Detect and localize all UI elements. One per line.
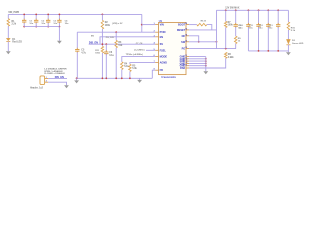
pin 17 GND (right) (186, 65, 189, 67)
svg-text:1: 1 (46, 77, 47, 79)
pin 14 NC (right) (186, 35, 189, 37)
pin 8 FB (left) (155, 69, 158, 71)
svg-text:4.99k: 4.99k (228, 56, 234, 59)
svg-text:PG: PG (182, 48, 186, 51)
ground (output) (287, 51, 289, 52)
ground (input caps) (57, 41, 62, 44)
svg-text:10u: 10u (41, 23, 45, 25)
resistor R2 enable pull-up (101, 14, 103, 20)
capacitor C3 input bypass (47, 14, 49, 19)
wire VIN top rail (8, 13, 142, 15)
svg-text:PVIN: PVIN (160, 31, 166, 34)
wire SW riser (216, 10, 218, 48)
svg-text:10u: 10u (29, 23, 33, 25)
resistor R8 feedback lower (224, 52, 227, 58)
wire D1 to ground (7, 42, 9, 52)
pin PAD (right) (186, 67, 189, 69)
pin 11 GND (right) (186, 56, 189, 58)
ground (gnd rail mid) (139, 78, 141, 80)
wire IC ground pin row 4 (189, 62, 206, 64)
junction C13 top (277, 9, 279, 11)
pin 12 PG (right) (186, 48, 189, 50)
wire gnd rail to IC pin 8 (152, 70, 155, 78)
pin 8 GND (right) (186, 62, 189, 64)
junction R11 / gnd rail (102, 77, 104, 79)
pin 7 AGND (left) (155, 62, 158, 64)
svg-text:10u: 10u (249, 27, 253, 29)
svg-text:SS: SS (160, 43, 164, 46)
svg-text:14: 14 (185, 33, 187, 36)
ground (input LED) (6, 51, 11, 54)
junction VIN pin 1 (141, 24, 143, 26)
connector J1 Header_1x2 (40, 76, 45, 85)
wire IC ground pin row 2 (189, 58, 206, 60)
pin 6 MODE (left) (155, 56, 158, 58)
svg-text:AGND: AGND (160, 62, 168, 65)
wire PG pin net (189, 48, 236, 50)
svg-text:EN: EN (160, 36, 164, 39)
wire jumper pin 2 to ground (48, 82, 67, 85)
resistor R9 series (234, 36, 237, 44)
svg-text:FB: FB (160, 69, 164, 72)
wire SW/VOUT top rail (217, 9, 289, 11)
junction R7 top (225, 9, 227, 11)
svg-text:Green LED: Green LED (292, 43, 304, 45)
svg-text:10u: 10u (53, 23, 57, 25)
capacitor C11 output (258, 10, 260, 24)
svg-text:17: 17 (185, 64, 187, 66)
junction C9 top (235, 9, 237, 11)
junction DIS_EN / R2 (102, 43, 104, 45)
pin 15 RESET (right) (186, 29, 189, 31)
junction NC/SW (198, 41, 200, 43)
resistor R7 feedback upper (225, 10, 227, 21)
junction SW vertical (216, 41, 218, 43)
svg-text:15: 15 (185, 29, 187, 31)
wire to input ground (58, 27, 60, 41)
junction C2 top (35, 14, 37, 16)
svg-text:10u: 10u (269, 27, 273, 29)
junction ground bus (205, 58, 207, 60)
ground (IC) (203, 71, 208, 74)
junction ground bus (205, 65, 207, 67)
svg-text:12V SW MAX: 12V SW MAX (225, 7, 240, 10)
junction VIN feed / R3 (115, 31, 117, 33)
junction R3 / gnd rail (115, 77, 117, 79)
svg-text:4: 4 (154, 42, 155, 45)
capacitor C12 output (267, 10, 269, 24)
pin 4 SS (left) (155, 43, 158, 45)
svg-text:0.1u: 0.1u (109, 55, 114, 57)
svg-text:1: 1 (154, 23, 155, 25)
svg-text:VIN_PWR: VIN_PWR (8, 11, 19, 14)
svg-text:R6_B: R6_B (201, 20, 207, 22)
wire R1 to D1 (7, 26, 9, 38)
svg-text:10u: 10u (239, 27, 243, 29)
wire IC ground pin row 1 (189, 56, 206, 58)
resistor R6 boot (189, 24, 197, 26)
svg-text:NC: NC (182, 35, 186, 38)
junction PG / feedback (225, 48, 227, 50)
svg-text:Red LED: Red LED (12, 42, 22, 44)
svg-text:RESET: RESET (177, 29, 186, 32)
capacitor C5 bulk input (76, 32, 78, 48)
wire IC pin 7 net (130, 63, 155, 65)
capacitor C2 input bypass (35, 14, 37, 19)
wire RESET pin to SW vertical (189, 29, 217, 31)
junction output cap ground (258, 50, 260, 52)
wire jumper pin 1 DIS_EN (48, 77, 67, 79)
junction output cap ground (267, 50, 269, 52)
svg-text:(VIN) = 2V: (VIN) = 2V (112, 23, 123, 25)
wire input cap ground rail (24, 26, 59, 28)
resistor R4 to ground (121, 62, 124, 70)
svg-text:FSEL: FSEL (160, 49, 167, 52)
LED D1 red power indicator (6, 38, 10, 41)
resistor R5 to ground (129, 64, 132, 71)
pin 1 VIN (left) (155, 24, 158, 26)
svg-text:TPS6x (=4.2MHz): TPS6x (=4.2MHz) (126, 53, 143, 56)
junction C4 bottom (59, 26, 61, 28)
pin 10 GND (right) (186, 58, 189, 60)
svg-text:100k: 100k (105, 25, 111, 27)
pin 9 GND (right) (186, 60, 189, 62)
svg-text:4.7u: 4.7u (81, 51, 86, 54)
op-amp U1 regulator TPS62913 (159, 23, 187, 75)
junction C1 top (23, 14, 25, 16)
wire feed rail B to IC pin 3 (100, 37, 155, 44)
capacitor C13 output (277, 10, 279, 24)
pin 13 SW (right) (186, 41, 189, 43)
junction C2 bottom (35, 26, 37, 28)
LED D2 green output indicator (286, 39, 290, 44)
svg-text:2: 2 (154, 31, 155, 33)
junction C3 bottom (47, 26, 49, 28)
svg-text:12: 12 (185, 47, 187, 49)
wire IC pin 6 net (122, 57, 155, 62)
junction DIS_EN / C6 (105, 43, 107, 45)
wire IC pin 5 net (146, 49, 155, 51)
junction VIN rail / R2 (102, 14, 104, 16)
svg-text:6: 6 (154, 55, 155, 57)
pin 3 EN (left) (155, 36, 158, 38)
svg-text:100k: 100k (95, 53, 101, 55)
pin 5 FSEL (left) (155, 49, 158, 51)
junction R5 / gnd rail (129, 77, 131, 79)
svg-text:10u: 10u (259, 27, 263, 29)
junction C12 top (267, 9, 269, 11)
wire D2 to output ground rail (287, 45, 289, 51)
junction ground bus (205, 63, 207, 65)
resistor R3 to ground (115, 32, 117, 40)
svg-text:TPS62913RPU: TPS62913RPU (161, 77, 176, 79)
pin 2 PVIN (left) (155, 31, 158, 33)
junction ground bus (205, 60, 207, 62)
junction C6 / gnd rail (105, 77, 107, 79)
wire analog ground rail (77, 77, 153, 79)
svg-text:13: 13 (185, 40, 187, 42)
wire IC ground pin row 6 (189, 67, 206, 69)
svg-text:Header_1x2: Header_1x2 (30, 88, 44, 90)
junction output cap ground (277, 50, 279, 52)
svg-text:VIN: VIN (160, 24, 164, 27)
svg-text:C7_C8: C7_C8 (136, 43, 143, 45)
wire pin 1 stub net (142, 24, 155, 26)
capacitor C10 output (247, 10, 249, 24)
junction C4 top (59, 14, 61, 16)
svg-text:5.6k: 5.6k (132, 68, 137, 70)
pin 16 BOOT (right) (186, 24, 189, 26)
svg-text:2: 2 (46, 81, 47, 83)
wire VIN to IC pin 1 (141, 14, 143, 32)
svg-text:SW: SW (181, 41, 186, 44)
svg-text:BOOT: BOOT (178, 24, 186, 27)
svg-text:10u: 10u (65, 23, 69, 25)
wire ground bus vertical (205, 57, 207, 72)
svg-text:7: 7 (154, 61, 155, 63)
junction C3 top (47, 14, 49, 16)
resistor R11 enable pull-down (101, 46, 104, 53)
junction R4 / gnd rail (121, 77, 123, 79)
ground (gnd rail left) (76, 78, 78, 80)
svg-text:8: 8 (154, 69, 155, 71)
svg-text:MODE: MODE (160, 56, 168, 59)
svg-text:5: 5 (154, 49, 155, 51)
junction C1 bottom (23, 26, 25, 28)
svg-text:16: 16 (185, 23, 187, 25)
wire PAD row to feedback bottom (206, 58, 226, 68)
svg-text:3: 3 (154, 35, 155, 37)
svg-text:PG_1V8: PG_1V8 (106, 37, 115, 39)
wire R2 to EN node (101, 29, 103, 46)
wire IC ground pin row 5 (189, 65, 206, 67)
ground (jumper) (64, 85, 69, 88)
svg-text:CLOSED = DISABLE: CLOSED = DISABLE (44, 72, 65, 75)
wire output ground rail (248, 50, 288, 52)
node DIS_EN enable wire (89, 43, 156, 45)
junction C11 top (258, 9, 260, 11)
svg-text:PAD: PAD (180, 67, 185, 70)
capacitor C9 feedforward (235, 10, 237, 24)
capacitor C6 enable delay (105, 44, 107, 52)
svg-text:(1-2.2MHz): (1-2.2MHz) (134, 50, 145, 52)
wire NC pin jog (189, 36, 199, 42)
resistor R10 output LED series (287, 10, 289, 22)
wire VIN feed rail A to IC pin 2 (77, 31, 155, 33)
junction gnd rail left end (76, 77, 78, 79)
wire IC ground pin row 3 (189, 60, 206, 62)
svg-text:100k: 100k (228, 25, 234, 27)
wire boot resistor to SW net (207, 25, 212, 30)
junction C10 top (248, 9, 250, 11)
svg-text:2.2k: 2.2k (12, 24, 17, 26)
resistor R1 (VIN LED series) (7, 14, 9, 18)
svg-text:DIS_EN: DIS_EN (89, 41, 98, 44)
wire SW pin (189, 41, 217, 43)
capacitor C4 input bypass (58, 14, 60, 19)
capacitor C1 input bypass (23, 14, 25, 19)
